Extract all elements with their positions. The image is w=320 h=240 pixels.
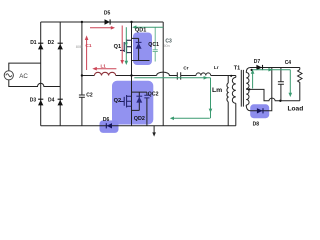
node T1 secondary top polarity dot <box>251 69 253 71</box>
wire Q1 branch vertical <box>131 22 133 76</box>
svg-text:C1: C1 <box>85 43 91 49</box>
wire C2 branch vertical <box>81 22 83 126</box>
node C4 bottom junction <box>279 100 281 102</box>
svg-text:Load: Load <box>288 106 304 113</box>
node T1 primary polarity dot <box>230 75 232 77</box>
red current arrow top rail right <box>90 26 115 30</box>
green current arrow secondary top right <box>253 68 291 72</box>
green current arrow Q1 cell down <box>125 27 129 65</box>
wire top rail <box>41 21 164 23</box>
wire Q2 branch vertical <box>131 76 133 126</box>
green current arrow Lm down <box>209 78 213 119</box>
wire primary leads <box>235 76 237 126</box>
wire AC top lead <box>9 63 41 71</box>
svg-text:QC1: QC1 <box>148 42 159 48</box>
svg-text:Q2: Q2 <box>114 98 121 104</box>
AC source <box>4 71 13 80</box>
wire load right bend <box>299 68 301 101</box>
red current arrow Q1 down <box>120 26 124 65</box>
svg-text:50n: 50n <box>163 44 169 48</box>
svg-text:QD2: QD2 <box>134 116 145 122</box>
svg-text:QC2: QC2 <box>148 92 159 98</box>
diode D4 <box>58 99 63 105</box>
svg-text:D2: D2 <box>48 40 55 46</box>
parasitic capacitor QC1 <box>153 27 158 61</box>
svg-text:Lm: Lm <box>212 87 222 94</box>
green current arrow secondary winding up <box>251 69 255 88</box>
transformer T1 core <box>241 70 243 107</box>
green current arrow top return left <box>132 25 163 29</box>
highlight box D6 <box>100 120 119 132</box>
transistor Q2 mosfet symbol <box>120 95 132 108</box>
green current arrow bottom return left <box>170 117 210 121</box>
svg-text:T1: T1 <box>234 66 240 72</box>
body diode QD2 <box>136 96 142 102</box>
highlight box Q2 cell <box>112 81 153 125</box>
wire mid rail right <box>181 75 236 77</box>
svg-text:D6: D6 <box>103 117 110 123</box>
inductor Lm <box>227 83 228 102</box>
wire center tap return with hop <box>246 89 300 100</box>
diode D5 <box>105 19 111 24</box>
wire secondary top to D7 <box>246 68 300 73</box>
node top rail Q1 junction <box>130 21 132 23</box>
green current arrow C4 down <box>289 70 293 97</box>
wire bottom rail <box>41 125 236 127</box>
wire Lm leads <box>227 76 229 126</box>
wire C3 branch vertical <box>162 22 164 126</box>
wire mid rail left <box>82 75 157 77</box>
wire QD2 bus <box>132 92 147 110</box>
red current arrow L1 left <box>92 67 116 71</box>
svg-text:D7: D7 <box>254 59 261 65</box>
body diode QD1 <box>136 42 142 48</box>
transistor Q1 mosfet symbol <box>120 40 132 54</box>
wire mid rail hop over C3 <box>157 72 178 75</box>
wire bridge right leg <box>59 22 61 126</box>
svg-text:L1: L1 <box>101 64 107 69</box>
svg-text:D4: D4 <box>48 98 55 104</box>
inductor Lr <box>196 73 211 76</box>
svg-text:80E: 80E <box>76 45 83 49</box>
highlight box D8 <box>250 104 269 118</box>
node T1 secondary mid polarity dot <box>248 88 250 90</box>
svg-text:AC: AC <box>19 73 28 80</box>
svg-text:D8: D8 <box>253 121 260 127</box>
wire QC2 vertical <box>146 92 148 126</box>
transformer T1 primary winding <box>232 77 235 103</box>
parasitic capacitor QC2 <box>144 95 149 98</box>
wire QD1 stubs <box>132 38 150 60</box>
svg-text:Cr: Cr <box>183 65 188 70</box>
capacitor C2 <box>79 95 85 97</box>
red current arrow C1 loop up <box>85 35 89 70</box>
node switch mid junction <box>130 74 132 76</box>
inductor L1 <box>94 72 115 75</box>
capacitor Cr <box>177 72 180 79</box>
svg-text:QD1: QD1 <box>135 27 146 33</box>
diode D6 <box>106 123 112 128</box>
diode D8 <box>257 108 263 113</box>
svg-text:D3: D3 <box>30 98 37 104</box>
highlight box Q1 cell <box>133 33 152 66</box>
svg-text:D1: D1 <box>30 40 37 46</box>
node top rail C2 junction <box>81 21 83 23</box>
wire AC bottom lead with hop <box>9 80 60 87</box>
diode D1 <box>38 43 43 49</box>
diode D2 <box>58 43 63 49</box>
capacitor C4 <box>278 82 284 84</box>
load resistor <box>298 70 302 84</box>
diode D3 <box>38 99 43 105</box>
wire C4 branch <box>280 68 282 101</box>
node mid rail C2 junction <box>81 74 83 76</box>
svg-text:C2: C2 <box>86 92 93 98</box>
svg-text:Lr: Lr <box>214 65 219 70</box>
wire D8 branch up <box>246 68 272 111</box>
transformer T1 secondary winding <box>246 73 249 106</box>
green current arrow mid rail right <box>134 76 210 80</box>
ground arrow <box>152 126 156 137</box>
svg-text:Q1: Q1 <box>114 44 121 50</box>
svg-text:C4: C4 <box>285 60 292 66</box>
diode D7 <box>256 65 262 70</box>
wire bridge left leg <box>40 22 42 126</box>
svg-text:D5: D5 <box>104 11 111 17</box>
